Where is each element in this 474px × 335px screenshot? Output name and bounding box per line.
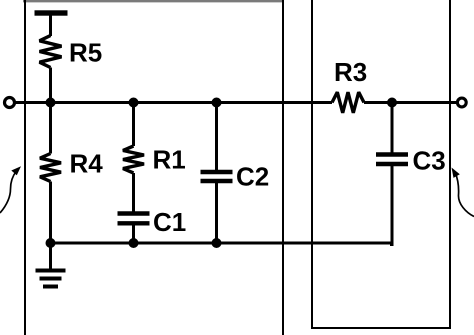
wire: C3 bottom down to bottom rail corner	[390, 164, 392, 245]
wire: C2 bottom to bottom rail	[215, 181, 218, 243]
annotation arrow: right port pointer	[452, 168, 474, 217]
svg-text:C3: C3	[413, 145, 446, 175]
power rail bar (supply)	[35, 10, 68, 15]
node: junction dot node A at R1	[129, 98, 139, 108]
wire: C1 bottom to bottom rail	[132, 223, 135, 243]
wire: R4 bottom to ground node	[49, 182, 52, 244]
resistor R5	[40, 36, 62, 68]
wire: R1 bottom to C1 top	[132, 173, 135, 214]
wire: node B to C3 top	[391, 103, 394, 155]
wire: supply bar to R5 top	[49, 14, 52, 36]
svg-text:R1: R1	[153, 145, 186, 175]
node: junction dot bottom rail at ground	[46, 238, 56, 248]
capacitor C3	[376, 155, 408, 165]
box: left two-port network enclosure (top edge faded gray)	[23, 0, 284, 335]
node: junction dot node A at R5/R4	[46, 98, 56, 108]
node: junction dot node A at C2	[212, 98, 222, 108]
resistor R1	[123, 146, 144, 173]
resistor R3	[332, 92, 364, 113]
resistor R4	[40, 154, 61, 182]
wire: bottom rail	[51, 242, 393, 245]
terminal: left input port (open circle)	[5, 98, 15, 108]
capacitor C1	[118, 214, 150, 224]
wire: node A to R1 top	[132, 103, 135, 147]
ground	[36, 243, 66, 287]
svg-text:C2: C2	[236, 162, 269, 192]
node: junction dot bottom rail at C2	[212, 238, 222, 248]
capacitor C2	[201, 172, 233, 181]
annotation arrow: left port pointer	[0, 166, 21, 213]
wire: node A to R4 top	[49, 103, 52, 154]
terminal: right output port (open circle)	[457, 98, 466, 107]
box: right network enclosure (no visible top edge)	[312, 0, 450, 328]
svg-text:R4: R4	[70, 149, 104, 179]
node: junction dot bottom rail at C1	[129, 238, 139, 248]
svg-text:R3: R3	[334, 57, 367, 87]
svg-text:R5: R5	[69, 38, 102, 68]
wire: R3 to output terminal	[364, 101, 457, 104]
wire: node A to C2 top	[215, 103, 218, 173]
node: junction dot node B at R3/C3	[387, 98, 397, 108]
svg-text:C1: C1	[153, 207, 186, 237]
wire: main node A horizontal (left segment to R3)	[15, 101, 332, 104]
wire: R5 bottom to node A	[49, 68, 52, 103]
